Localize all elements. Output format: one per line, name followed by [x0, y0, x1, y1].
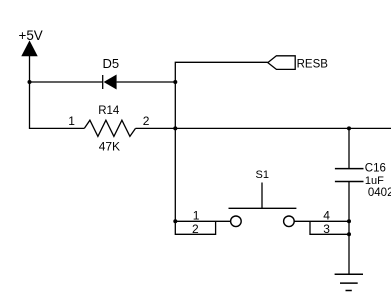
svg-text:1: 1: [193, 208, 200, 222]
svg-text:2: 2: [192, 222, 199, 236]
svg-text:47K: 47K: [99, 140, 120, 154]
diode D5: [103, 75, 117, 90]
resistor R14: [84, 120, 135, 136]
wire resistor row left: [29, 127, 84, 129]
junction pin 3 and capacitor branch: [347, 232, 351, 236]
junction at +5V and diode row: [28, 80, 32, 84]
svg-text:C16: C16: [365, 162, 386, 174]
switch S1 right contact: [284, 216, 295, 227]
junction resistor row and reset vertical: [173, 126, 177, 130]
svg-text:RESB: RESB: [297, 58, 329, 70]
svg-text:1: 1: [68, 114, 75, 128]
junction resistor row and capacitor branch: [347, 126, 351, 130]
wire +5V vertical: [29, 54, 31, 128]
wire diode row left: [30, 81, 103, 83]
wire pin 2: [175, 221, 215, 234]
svg-text:D5: D5: [103, 56, 120, 71]
switch S1 actuator: [229, 183, 297, 209]
wire capacitor bottom to ground: [348, 182, 350, 275]
svg-text:1uF: 1uF: [365, 175, 384, 187]
wire pin 1: [175, 220, 230, 222]
net flag RESB: [268, 56, 295, 70]
svg-text:R14: R14: [98, 105, 120, 117]
junction reset vertical and pin 1: [173, 219, 177, 223]
switch S1 left contact: [231, 216, 242, 227]
junction pin 4 and capacitor branch: [347, 219, 351, 223]
svg-text:+5V: +5V: [19, 28, 43, 43]
svg-text:3: 3: [323, 222, 330, 236]
svg-text:4: 4: [323, 208, 330, 222]
wire capacitor top: [348, 128, 350, 168]
capacitor C16: [335, 169, 364, 182]
wire RESB row: [175, 62, 267, 221]
svg-text:0402: 0402: [368, 187, 391, 199]
ground: [335, 274, 363, 290]
wire pin 4: [294, 220, 349, 222]
wire diode row right: [117, 81, 176, 83]
wire resistor row right: [136, 127, 391, 129]
svg-text:2: 2: [143, 114, 150, 128]
junction diode row and reset vertical: [173, 80, 177, 84]
power symbol +5V: [22, 42, 37, 56]
svg-text:S1: S1: [256, 169, 269, 181]
wire pin 3: [310, 221, 349, 234]
